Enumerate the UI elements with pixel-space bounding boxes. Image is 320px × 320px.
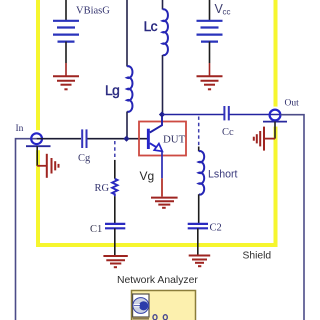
wire VBiasG top lead [65,0,67,21]
wire Lg bottom lead [126,112,128,139]
node collector [159,111,165,117]
capacitor Cg [82,129,86,148]
network analyzer box [132,291,196,320]
svg-text:cc: cc [223,8,231,17]
battery VBiasG [53,21,79,42]
wire Cg to base junction [88,138,148,140]
svg-text:Vg: Vg [140,169,155,183]
ground (VBiasG) [53,76,79,89]
wire Vcc to ground [209,42,211,63]
network analyzer screen [133,294,149,317]
wire emitter lead [161,151,163,178]
port Out bar [263,121,287,123]
network analyzer screen bottom edge [133,317,149,320]
ground (Out, rotated left) [254,127,264,151]
resistor RG [112,179,117,197]
transistor emitter stroke [150,143,158,148]
transistor collector stroke [150,115,162,133]
wire drain line to Cc [162,114,224,116]
wire In ground stem [36,146,38,166]
transistor Q base bar [147,129,150,149]
wire C2 to ground [197,228,199,255]
wire Lc bottom lead [162,55,164,115]
wire Out ground stem [274,122,276,139]
svg-text:Lg: Lg [105,83,119,98]
ground (C1) [103,256,127,267]
network analyzer port 2 [163,315,167,320]
wire C1 to ground [114,228,116,255]
wire to Lshort [198,147,200,152]
port Out (circle) [270,110,281,121]
wire RG to C1 [114,196,116,223]
svg-text:Shield: Shield [243,251,272,262]
wire In feed (left, down to analyzer) [16,139,37,320]
wire Lshort dashed drop [198,117,200,147]
network analyzer smith chart icon [133,298,149,314]
port In keepout [30,130,45,150]
svg-text:Lc: Lc [144,19,158,34]
shield box (yellow) [38,0,276,245]
network analyzer port 1 [153,315,157,320]
svg-text:Cg: Cg [78,153,91,164]
wire Lc top lead [162,0,164,10]
port In bar [26,145,51,147]
svg-text:Lshort: Lshort [208,168,237,180]
ground (emitter) [151,198,178,208]
svg-text:DUT: DUT [163,133,186,145]
svg-text:RG: RG [95,183,110,194]
port Out keepout [268,107,283,127]
wire Lg top lead [126,0,128,67]
wire In to Cg [37,138,81,140]
wire VBiasG to ground [65,42,67,63]
DUT box [139,122,186,156]
svg-text:Network Analyzer: Network Analyzer [117,275,198,286]
battery Vcc [197,21,223,42]
svg-text:C2: C2 [210,223,222,234]
capacitor C2 [188,224,208,228]
ground (Vcc) [197,76,223,89]
capacitor C1 [105,224,125,228]
svg-text:VBiasG: VBiasG [76,6,110,17]
wire Vcc top lead [209,0,211,21]
port In (circle) [31,133,42,144]
wire Lshort to C2 [198,194,200,223]
svg-text:C1: C1 [90,224,102,235]
svg-text:Out: Out [285,99,300,109]
ground (In, rotated right) [47,154,59,178]
wire Cc to Out [230,114,282,116]
svg-text:In: In [16,124,24,134]
wire Out feed (right, down to analyzer) [281,115,305,320]
transistor emitter arrow [154,144,162,152]
capacitor Cc [224,106,228,120]
inductor Lg [127,66,132,112]
wire bias to RG [114,160,116,179]
wire gate bias dashed drop [114,141,116,160]
svg-text:Cc: Cc [222,127,234,138]
node gate junction [123,136,129,142]
inductor Lc [163,9,168,55]
ground (C2) [189,256,211,267]
inductor Lshort [199,151,204,195]
